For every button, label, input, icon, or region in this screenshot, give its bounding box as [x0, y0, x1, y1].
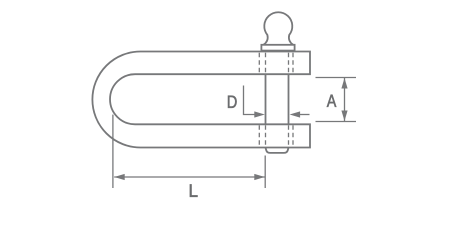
pin shaft right edge (between arms) — [288, 74, 290, 124]
dimension L right extension line — [264, 156, 266, 189]
dimension A bottom arrowhead — [341, 111, 347, 122]
label D — [228, 96, 237, 108]
dimension L right arrowhead — [254, 174, 264, 180]
dimension A line — [344, 78, 346, 122]
shackle body outline — [92, 52, 310, 148]
dimension A top extension line — [316, 77, 357, 79]
hidden pin shaft right, top arm — [288, 53, 290, 74]
hidden hole edge right, lower arm — [292, 125, 294, 146]
dimension L left arrowhead — [114, 174, 125, 180]
hidden pin shaft right, lower arm — [288, 125, 290, 146]
dimension D left arrowhead — [254, 111, 264, 117]
dimension A bottom extension line — [316, 121, 357, 123]
pin collar — [261, 45, 294, 51]
hidden hole edge left, top arm — [258, 53, 260, 74]
dimension D leader line — [244, 86, 257, 115]
dimension L line — [114, 176, 265, 178]
pin ball head — [264, 12, 294, 45]
hidden hole edge right, top arm — [292, 53, 294, 74]
pin tip below lower arm — [266, 148, 289, 153]
hidden pin shaft left, top arm — [265, 53, 267, 74]
label A — [327, 95, 337, 107]
dimension A top arrowhead — [341, 78, 347, 89]
hidden pin shaft left, lower arm — [265, 125, 267, 146]
dimension D right arrowhead — [290, 111, 301, 117]
pin shaft left edge (between arms) — [265, 74, 267, 124]
label L — [190, 184, 198, 196]
hidden hole edge left, lower arm — [258, 125, 260, 146]
dimension L left extension line — [112, 115, 114, 188]
dimension D right tail line — [298, 114, 310, 116]
